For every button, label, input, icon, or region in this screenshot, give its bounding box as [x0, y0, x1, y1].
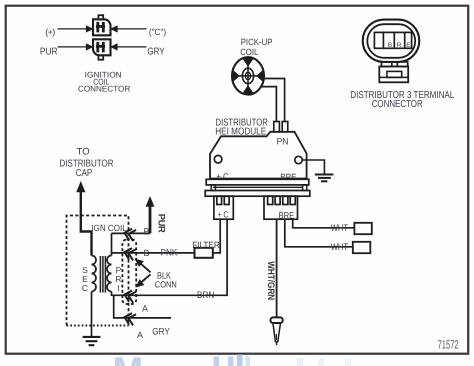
svg-text:GRY: GRY	[152, 326, 170, 337]
label IGNITION COIL CONNECTOR	[78, 70, 130, 93]
label DISTRIBUTOR 3 TERMINAL CONNECTOR	[350, 90, 454, 110]
wire to ("C")	[117, 28, 147, 30]
svg-text:A: A	[137, 330, 143, 340]
arrow into terminal 1 left	[86, 25, 94, 32]
svg-text:(+): (+)	[45, 27, 55, 37]
coil secondary winding SEC	[92, 256, 97, 292]
distributor 3 terminal connector outer shell	[363, 20, 420, 62]
svg-text:CONN: CONN	[155, 279, 177, 289]
ignition coil dashed box	[67, 216, 129, 326]
svg-text:PN: PN	[277, 136, 289, 147]
ground (module)	[315, 175, 334, 182]
label PRI	[115, 265, 121, 293]
right plug block BRE	[264, 196, 298, 219]
connector pin chevron 3	[123, 289, 136, 303]
wire primary bottom to BRN	[111, 292, 113, 297]
arrow into terminal 2 left	[86, 43, 94, 50]
svg-text:PICK-UP: PICK-UP	[241, 37, 273, 47]
wire GRY stub	[114, 295, 171, 318]
svg-text:CONNECTOR: CONNECTOR	[78, 85, 130, 94]
bar link left	[211, 185, 215, 191]
wire BRN	[112, 219, 228, 295]
BLK CONN dashed box	[122, 240, 136, 305]
arrow BLK CONN to pin 2	[141, 264, 151, 273]
svg-text:R: R	[397, 42, 402, 49]
transformer core	[100, 256, 105, 293]
terminal WHT lower	[353, 242, 371, 253]
tach terminal probe	[271, 317, 283, 345]
arrow BLK CONN to pin 3	[141, 274, 151, 282]
connector terminal slots	[374, 32, 411, 48]
bar middle line	[213, 186, 303, 188]
label BLK CONN	[155, 270, 177, 289]
wire WHT lower	[285, 219, 353, 247]
connector pin chevron 1	[123, 227, 136, 241]
ignition coil connector terminal 1	[93, 15, 111, 35]
svg-text:COIL: COIL	[240, 47, 258, 57]
module mounting hole right	[295, 156, 302, 163]
arrow into terminal 2 right	[110, 43, 118, 50]
wire module to ground	[302, 160, 324, 174]
svg-text:BRN: BRN	[197, 290, 215, 301]
wire WHT upper	[293, 219, 355, 228]
arrow PUR up	[146, 196, 155, 207]
wire to PUR	[58, 46, 87, 48]
PUR feed line	[149, 206, 152, 233]
svg-text:IGN COIL: IGN COIL	[91, 223, 127, 233]
HEI module body	[210, 132, 307, 179]
wire WHT/GRN	[276, 219, 278, 317]
watermark fragments	[113, 349, 351, 366]
coil primary winding PRI	[107, 256, 112, 292]
svg-text:CONNECTOR: CONNECTOR	[372, 99, 423, 110]
svg-text:+ C: + C	[218, 209, 229, 219]
connector base body	[379, 67, 408, 83]
wire coil secondary to distributor cap	[81, 192, 92, 256]
svg-text:E: E	[406, 42, 411, 49]
wire pick-up coil to module pin 2	[261, 87, 276, 122]
svg-text:WHT: WHT	[331, 223, 349, 234]
svg-text:WHT: WHT	[331, 242, 349, 253]
svg-text:TO: TO	[77, 147, 90, 158]
svg-text:BRE: BRE	[279, 210, 295, 220]
svg-text:B: B	[388, 42, 392, 49]
slot letters B R E	[388, 42, 412, 49]
wire to GRY	[117, 46, 147, 48]
arrow into terminal 1 right	[110, 25, 118, 32]
wire primary top node	[111, 233, 113, 255]
svg-text:BRE: BRE	[280, 172, 296, 182]
label SEC	[82, 265, 88, 293]
module connector bar upper	[206, 179, 309, 185]
left plug block +C	[214, 196, 233, 219]
svg-text:B: B	[144, 248, 150, 258]
svg-text:B: B	[144, 226, 150, 236]
svg-text:I: I	[117, 283, 119, 293]
svg-text:CAP: CAP	[76, 168, 93, 179]
svg-text:FILTER: FILTER	[192, 240, 220, 250]
svg-text:WHT/GRN: WHT/GRN	[265, 261, 276, 300]
svg-text:PNK: PNK	[161, 248, 178, 259]
wire PNK	[112, 252, 195, 254]
wire pin B to PUR	[112, 232, 151, 234]
svg-text:71572: 71572	[438, 338, 459, 352]
module mounting hole left	[214, 155, 222, 163]
svg-text:("C"): ("C")	[149, 27, 166, 37]
filter body	[195, 248, 213, 258]
pick-up coil	[232, 57, 264, 94]
terminal WHT upper	[354, 223, 371, 234]
svg-text:A: A	[142, 304, 148, 314]
arrow to distributor cap	[76, 181, 85, 192]
wire pick-up coil to module pin 1	[262, 79, 284, 122]
module HEI pin 1	[274, 122, 280, 132]
svg-text:M: M	[113, 349, 143, 366]
ground (coil)	[83, 337, 101, 345]
svg-text:GRY: GRY	[147, 46, 164, 57]
label DISTRIBUTOR HEI MODULE	[215, 118, 268, 138]
module connector bar lower	[205, 191, 310, 197]
wire left plug pin1 to filter	[213, 219, 221, 253]
svg-text:C: C	[82, 283, 88, 293]
svg-text:PUR: PUR	[40, 46, 58, 57]
connector tabs	[382, 62, 392, 67]
connector inner shell	[367, 24, 415, 58]
connector pin chevron 2	[123, 247, 136, 261]
wire to (+)	[58, 28, 87, 30]
label TO DISTRIBUTOR CAP	[60, 147, 114, 179]
bar link right	[303, 185, 307, 191]
svg-text:PUR: PUR	[156, 214, 167, 233]
wire secondary bottom to ground	[91, 292, 93, 337]
connector pin chevron 4	[123, 312, 136, 326]
ignition coil connector terminal 2	[93, 39, 111, 59]
module HEI pin 2	[282, 122, 288, 132]
label PICK-UP COIL	[240, 37, 272, 57]
